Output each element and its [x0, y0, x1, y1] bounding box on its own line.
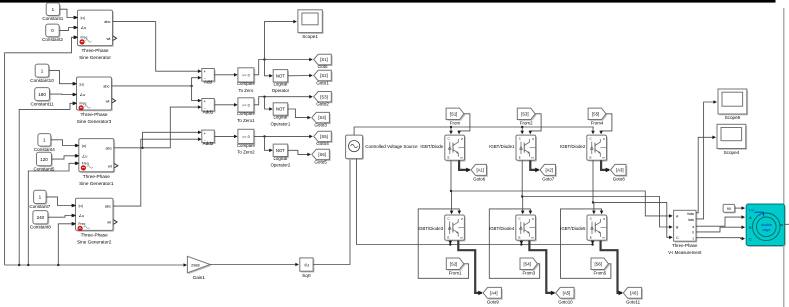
svg-text:∠u: ∠u [80, 92, 86, 97]
svg-text:Constant7: Constant7 [29, 204, 50, 209]
svg-text:Gain1: Gain1 [193, 275, 206, 280]
svg-text:Sine Generator2: Sine Generator2 [77, 240, 112, 245]
wire bus drop to collector [450, 127, 452, 133]
svg-text:IGBT/Diode2: IGBT/Diode2 [560, 144, 586, 149]
svg-text:To Zero: To Zero [238, 88, 253, 93]
svg-text:IGBT/Diode1: IGBT/Diode1 [489, 144, 515, 149]
svg-text:NOT: NOT [276, 74, 285, 79]
svg-text:Goto10: Goto10 [558, 300, 573, 305]
wire emitter to negative bus [592, 241, 594, 244]
svg-text:Constant10: Constant10 [30, 78, 54, 83]
goto tag [A1] [472, 166, 488, 177]
svg-text:double: double [761, 223, 772, 227]
goto tag [S3] [315, 93, 333, 103]
svg-text:Freq: Freq [81, 36, 88, 40]
svg-text:Goto: Goto [318, 64, 328, 69]
IGBT block IGBT/Diode1 [517, 136, 537, 161]
svg-text:1: 1 [52, 7, 55, 12]
svg-text:abc: abc [105, 204, 111, 209]
svg-text:Goto3: Goto3 [314, 123, 327, 128]
asynchronous machine double cage [748, 205, 786, 247]
svg-text:Controlled Voltage Source: Controlled Voltage Source [365, 144, 418, 149]
svg-text:Goto1: Goto1 [316, 81, 329, 86]
sum block Add1 [203, 100, 216, 113]
wire Constant7 to |u| [46, 197, 74, 206]
wire from tag loop to gate [489, 209, 539, 278]
goto tag [A2] [541, 166, 557, 177]
svg-text:>= 0: >= 0 [242, 135, 250, 139]
wire compare output to goto tag [254, 135, 312, 137]
wire Gain1 to Sqrt [210, 264, 298, 266]
svg-text:>= 0: >= 0 [242, 73, 250, 77]
wire Constant10 to |u| [49, 71, 76, 84]
svg-text:Operator1: Operator1 [271, 121, 291, 126]
wire emitter to negative bus [520, 241, 522, 244]
svg-text:√u: √u [304, 262, 310, 267]
svg-text:240: 240 [37, 215, 45, 220]
wire to Add minus [192, 78, 201, 86]
svg-text:IGBT/Diode5: IGBT/Diode5 [560, 226, 586, 231]
wire from tag to gate [601, 114, 612, 134]
svg-text:Add1: Add1 [203, 109, 214, 114]
wire negative bus from CVS [357, 159, 593, 245]
svg-text:180: 180 [38, 92, 46, 97]
svg-text:Operator: Operator [272, 88, 290, 93]
svg-text:Sine Generator: Sine Generator [79, 55, 111, 60]
svg-text:Three-Phase: Three-Phase [81, 233, 108, 238]
compare-to-zero block To Zero2 [239, 131, 255, 145]
svg-text:E: E [448, 156, 450, 160]
svg-text:abc: abc [106, 145, 112, 150]
svg-text:Sine Generator3: Sine Generator3 [77, 119, 112, 124]
svg-text:[S1]: [S1] [450, 111, 457, 116]
wire branch to NOT [265, 60, 273, 76]
svg-text:Goto6: Goto6 [473, 177, 486, 182]
goto tag [A3] [612, 166, 628, 177]
thick measurement wire to goto tag [530, 160, 538, 170]
wire NOT output to goto tag [288, 75, 312, 77]
from tag [S1] [447, 109, 465, 120]
svg-text:To Zero2: To Zero2 [237, 150, 255, 155]
thick measurement wire to goto tag [601, 241, 622, 293]
svg-text:Vabc: Vabc [687, 212, 695, 216]
from tag [S4] [521, 259, 539, 271]
svg-text:[A2]: [A2] [545, 168, 552, 173]
wire Iabc to Scope5 [696, 102, 716, 219]
wire a to machine A [696, 217, 744, 226]
svg-text:From5: From5 [593, 271, 606, 276]
wire phase line to measurement input A [451, 191, 672, 216]
svg-text:2988: 2988 [191, 263, 199, 267]
wire compare output to goto tag [254, 97, 312, 105]
svg-text:Freq: Freq [79, 222, 86, 226]
svg-text:1: 1 [39, 195, 42, 200]
three-phase sine generator1 [80, 140, 115, 173]
wire emitter to lower collector with phase node [450, 160, 453, 213]
wire b to machine B [696, 227, 744, 232]
constant Constant4 [39, 135, 52, 148]
svg-text:Compare: Compare [237, 111, 256, 116]
svg-text:Scope4: Scope4 [724, 150, 740, 155]
goto tag [S6] [313, 151, 331, 161]
wire from tag to gate [530, 114, 541, 134]
scope Scope1 [299, 11, 323, 34]
svg-text:NOT: NOT [276, 148, 285, 153]
wire NOT output to goto tag [288, 109, 310, 118]
svg-text:Three-Phase: Three-Phase [81, 48, 108, 53]
wire compare row1 to Scope1 [265, 22, 297, 60]
logical operator NOT Operator1 [275, 104, 290, 116]
svg-text:cage: cage [763, 228, 771, 232]
window top border bar [0, 0, 776, 3]
wire NOT output to goto tag [288, 150, 310, 154]
svg-text:Goto8: Goto8 [613, 177, 626, 182]
constant Constant11 [36, 89, 51, 102]
wire phase line to measurement input B [522, 197, 672, 228]
wire from tag to gate [459, 114, 470, 134]
compare-to-zero block To Zero [239, 69, 255, 83]
svg-text:120: 120 [40, 157, 48, 162]
svg-text:[S4]: [S4] [318, 115, 325, 120]
constant Constant10 [37, 65, 51, 78]
constant Constant1 [48, 4, 61, 17]
svg-text:∠u: ∠u [79, 213, 85, 218]
svg-text:C: C [676, 236, 679, 240]
svg-text:|u|: |u| [81, 15, 85, 20]
svg-text:Three-Phase: Three-Phase [83, 174, 110, 179]
IGBT block IGBT/Diode3 [446, 216, 466, 241]
svg-text:b: b [692, 231, 694, 235]
svg-text:Goto7: Goto7 [542, 177, 555, 182]
svg-text:NOT: NOT [276, 107, 285, 112]
from tag [S5] [589, 109, 607, 120]
wire Vabc to Scope4 [696, 137, 715, 213]
svg-text:Goto11: Goto11 [626, 300, 641, 305]
svg-text:[A5]: [A5] [563, 291, 570, 296]
thick measurement wire to goto tag [529, 241, 554, 293]
svg-text:Freq: Freq [82, 162, 89, 166]
svg-text:E: E [590, 235, 592, 239]
wire freq tap to Sine Generator3 [19, 103, 75, 265]
svg-text:[S6]: [S6] [594, 261, 601, 266]
wire phase line to measurement input C [593, 202, 672, 237]
svg-text:Goto5: Goto5 [314, 159, 327, 164]
svg-text:Goto9: Goto9 [487, 300, 500, 305]
wire emitter to lower collector with phase node [592, 160, 595, 213]
goto tag [A4] [484, 289, 502, 300]
svg-text:Constant1: Constant1 [42, 16, 63, 21]
wire Add2 to compare [214, 135, 237, 137]
svg-text:0: 0 [51, 28, 54, 33]
goto tag [S2] [315, 72, 333, 82]
wire gen3 abc junction [112, 85, 192, 87]
svg-text:Freq: Freq [80, 102, 87, 106]
svg-text:[S3]: [S3] [320, 94, 327, 99]
wire Constant4 to |u| [51, 140, 78, 146]
svg-text:Add: Add [204, 79, 213, 84]
from tag [S2] [448, 259, 466, 271]
svg-text:Operator2: Operator2 [271, 163, 291, 168]
svg-text:|u|: |u| [82, 143, 86, 148]
svg-text:Scope1: Scope1 [302, 34, 318, 39]
goto tag [S5] [315, 133, 333, 143]
svg-text:[S6]: [S6] [318, 152, 325, 157]
svg-text:Three-Phase: Three-Phase [80, 112, 107, 117]
svg-text:From1: From1 [449, 271, 462, 276]
wire c to machine C [696, 237, 744, 240]
svg-text:a: a [692, 225, 694, 229]
wire freq tap to Sine Generator2 [58, 224, 74, 265]
svg-text:Logical: Logical [273, 82, 287, 87]
from tag [S3] [519, 109, 537, 120]
svg-text:[S2]: [S2] [320, 73, 327, 78]
wire freq tap to Sine Generator1 [28, 163, 77, 265]
svg-text:E: E [519, 156, 521, 160]
svg-text:|u|: |u| [79, 203, 83, 208]
svg-text:From4: From4 [591, 121, 604, 126]
svg-text:[S5]: [S5] [320, 134, 327, 139]
wire freq tap to Sine Generator [5, 37, 77, 265]
goto tag [S1] [315, 56, 333, 66]
thick measurement wire to goto tag [459, 160, 469, 170]
three-phase sine generator3 [78, 78, 113, 111]
svg-text:Scope5: Scope5 [725, 115, 741, 120]
svg-text:[S3]: [S3] [521, 111, 528, 116]
svg-text:[S1]: [S1] [320, 57, 327, 62]
svg-text:|u|: |u| [80, 81, 84, 86]
wire gen2 abc to Add2 minus [113, 139, 201, 206]
svg-text:∠u: ∠u [81, 25, 87, 30]
svg-text:1: 1 [43, 138, 46, 143]
svg-text:Three-Phase: Three-Phase [672, 243, 698, 248]
wire Add to compare [214, 74, 237, 76]
svg-text:[A6]: [A6] [630, 291, 637, 296]
from tag [S6] [592, 259, 610, 271]
wire branch to NOT [265, 97, 273, 109]
constant Constant2 [47, 25, 61, 38]
wire machine m output [785, 223, 789, 225]
svg-text:abc: abc [103, 84, 109, 89]
svg-text:Compare: Compare [237, 143, 256, 148]
svg-text:Goto2: Goto2 [316, 101, 329, 106]
goto tag [S4] [313, 114, 331, 124]
three-phase sine generator [79, 11, 114, 47]
wire bus drop to collector [521, 127, 523, 133]
sum block Add [203, 70, 216, 83]
wire Constant5 to angle-u [52, 156, 78, 159]
wire Sqrt to voltage source signal input [313, 159, 350, 264]
svg-text:Constant11: Constant11 [31, 101, 55, 106]
svg-text:Sine Generator1: Sine Generator1 [79, 181, 114, 186]
svg-text:From3: From3 [522, 271, 535, 276]
svg-text:Constant8: Constant8 [30, 225, 51, 230]
svg-text:Logical: Logical [273, 115, 287, 120]
svg-text:>= 0: >= 0 [242, 103, 250, 107]
logical operator NOT Operator [275, 71, 290, 83]
svg-text:Compare: Compare [237, 81, 256, 86]
constant 90 torque [724, 206, 736, 214]
IGBT block IGBT/Diode4 [517, 216, 537, 241]
svg-text:Goto4: Goto4 [316, 141, 329, 146]
svg-text:1: 1 [41, 68, 44, 73]
svg-text:∠u: ∠u [82, 153, 88, 158]
svg-text:IGBT/Diode3: IGBT/Diode3 [418, 226, 444, 231]
svg-text:From: From [450, 121, 461, 126]
sum block Add2 [203, 131, 216, 144]
wire tap gen1 abc to Add2 plus [141, 147, 143, 149]
svg-text:Constant5: Constant5 [34, 166, 55, 171]
wire Constant1 to |u| [60, 9, 77, 17]
thick measurement wire to goto tag [458, 241, 481, 293]
svg-text:Add2: Add2 [203, 141, 214, 146]
svg-text:E: E [519, 235, 521, 239]
wire frequency bus [5, 264, 187, 266]
sqrt block Sqrt [301, 259, 314, 272]
svg-text:V-I Measurement: V-I Measurement [668, 250, 702, 255]
svg-text:From2: From2 [520, 121, 533, 126]
wire gen abc to Add [113, 22, 201, 72]
svg-text:[A3]: [A3] [616, 168, 623, 173]
scope Scope4 [718, 126, 747, 150]
scope Scope5 [719, 90, 748, 115]
three-phase sine generator2 [77, 200, 115, 232]
svg-text:IGBT/Diode4: IGBT/Diode4 [489, 226, 515, 231]
wire Constant11 to angle-u [50, 93, 76, 95]
logical operator NOT Operator2 [275, 145, 290, 157]
svg-text:[A1]: [A1] [476, 168, 483, 173]
svg-text:Constant2: Constant2 [42, 37, 63, 42]
IGBT block IGBT/Diode2 [588, 136, 608, 161]
wire from tag loop to gate [418, 209, 468, 278]
goto tag [A5] [557, 289, 575, 300]
wire branch to NOT [265, 136, 273, 150]
wire Constant2 to angle-u [59, 28, 76, 31]
constant Constant8 [34, 212, 49, 225]
controlled voltage source CVS [347, 136, 364, 160]
svg-text:Constant4: Constant4 [34, 147, 55, 152]
three-phase V-I measurement block [675, 212, 697, 243]
svg-text:Tm: Tm [749, 208, 754, 212]
wire bus drop to collector [592, 127, 594, 133]
svg-text:abc: abc [104, 19, 110, 24]
svg-text:E: E [447, 235, 449, 239]
wire from tag loop to gate [561, 209, 611, 278]
wire positive bus from CVS [354, 127, 594, 135]
goto tag [A6] [625, 289, 643, 300]
wire 90 to Tm [735, 207, 745, 209]
wire emitter to lower collector with phase node [521, 160, 524, 213]
constant Constant7 [35, 192, 48, 205]
wire emitter to negative bus [449, 241, 451, 244]
compare-to-zero block To Zero1 [239, 99, 255, 113]
svg-text:[A4]: [A4] [490, 291, 497, 296]
window right border line [783, 8, 784, 307]
svg-text:To Zero1: To Zero1 [237, 118, 255, 123]
svg-text:m: m [780, 223, 783, 227]
svg-text:IGBT/Diode: IGBT/Diode [420, 144, 443, 149]
IGBT block IGBT/Diode5 [588, 216, 608, 241]
wire to Add1 plus [192, 86, 201, 101]
svg-text:Iabc: Iabc [688, 218, 695, 222]
wire Add1 to compare [214, 104, 237, 106]
IGBT block IGBT/Diode [446, 136, 466, 161]
svg-text:E: E [590, 156, 592, 160]
wire gen1 abc to Add1 minus [114, 107, 201, 148]
wire Constant8 to angle-u [48, 216, 74, 218]
thick measurement wire to goto tag [601, 160, 609, 170]
constant Constant5 [38, 154, 53, 168]
svg-text:[S2]: [S2] [450, 261, 457, 266]
wire compare output to goto tag [254, 60, 312, 75]
svg-text:90: 90 [727, 207, 731, 211]
gain Gain1 [189, 258, 212, 275]
svg-text:Logical: Logical [273, 156, 287, 161]
svg-text:[S5]: [S5] [592, 111, 599, 116]
svg-text:[S4]: [S4] [523, 261, 530, 266]
svg-text:Sqrt: Sqrt [302, 273, 311, 278]
